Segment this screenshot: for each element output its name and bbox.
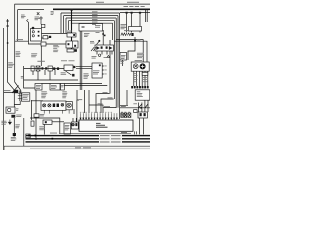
wire: switch drops x97-x112 xyxy=(97,51,112,55)
hazard blob xyxy=(73,66,75,68)
wire: staircase line 2 xyxy=(64,15,118,17)
head relay blob b xyxy=(104,35,106,37)
wire: row drop 2 xyxy=(37,71,39,80)
component boxes (white fill) xyxy=(6,24,150,138)
label left of switch xyxy=(90,40,94,43)
wire: lower-left vertical x23.8 xyxy=(23,118,25,146)
wire: right bus vertical 1 xyxy=(119,13,121,119)
wire: main center vertical (thick) xyxy=(71,9,73,52)
label wiper xyxy=(62,90,67,93)
wire: battery negative jog xyxy=(14,101,20,105)
bus junction dot c xyxy=(52,138,54,140)
small triangle symbols below switch xyxy=(107,55,110,57)
module pin comb with arrowheads xyxy=(80,86,149,119)
fuse box small x34 xyxy=(34,114,39,117)
page number text right xyxy=(127,1,139,4)
ground bus bar 3 xyxy=(26,141,151,142)
legend title text xyxy=(75,146,81,149)
combo pin labels xyxy=(104,65,106,68)
wire: top border line xyxy=(15,3,151,5)
fusebox divider xyxy=(71,41,73,48)
pin row of control module xyxy=(81,113,117,118)
bus wire labels xyxy=(92,10,98,13)
starter motor box xyxy=(6,107,15,113)
relay contact blob headlamp a xyxy=(101,46,103,48)
label turn hazard xyxy=(61,59,67,62)
relay solenoid label xyxy=(133,102,137,105)
dimmer box far right xyxy=(129,27,142,32)
wire: fuse drop x135 xyxy=(128,37,135,60)
relay A5 text xyxy=(36,84,41,87)
wire: relay coil drop xyxy=(40,46,42,66)
frame ground blob xyxy=(13,133,16,136)
solenoid box right-bottom xyxy=(138,112,147,118)
bus junction dot d xyxy=(14,135,16,136)
ignition switch upper box xyxy=(67,33,76,37)
motor housing box xyxy=(66,102,72,110)
wire: battery top line xyxy=(4,92,14,94)
inline connector blob xyxy=(49,36,51,38)
wire: row drop 1 xyxy=(32,71,34,75)
glow controller text xyxy=(137,90,141,93)
switch contact blob xyxy=(73,34,75,36)
wire: head relay drop xyxy=(102,30,104,45)
lamp symbol 2 xyxy=(48,104,51,107)
label 14 xyxy=(21,75,23,78)
wire: jog to far-right vertical A xyxy=(116,40,143,62)
row small box 2 (with X) xyxy=(36,66,40,71)
junction block box xyxy=(22,93,30,101)
wire: mid horizontal y83.6 xyxy=(41,83,102,85)
sensor blob xyxy=(72,74,74,77)
wire: staircase line 3 xyxy=(66,17,116,19)
label window relay xyxy=(31,52,37,55)
fuse F1 small box xyxy=(43,36,48,39)
ground bus bar 1 xyxy=(26,135,151,136)
gauge circle left xyxy=(133,64,138,69)
connector pins with X 2 xyxy=(124,113,127,117)
wire: long horizontal y80 xyxy=(24,79,78,81)
brake lamp symbol xyxy=(72,123,75,126)
box A6 text xyxy=(61,84,64,87)
label window pack xyxy=(41,90,47,93)
relay row blob c xyxy=(53,67,55,70)
label below relay box xyxy=(92,55,97,58)
pin arrowheads xyxy=(80,118,118,120)
wire: staircase left vertical 4 xyxy=(67,21,69,30)
tiny text specks (unreadable labels) xyxy=(1,2,147,141)
relay row blob d xyxy=(57,67,59,70)
connector C9 small box xyxy=(142,72,148,75)
ground bus bar 2 xyxy=(26,138,151,139)
label glow plug xyxy=(137,52,144,55)
head relay blob a xyxy=(102,33,104,35)
label fuse C6 xyxy=(121,54,126,57)
label right of fuse xyxy=(137,39,141,42)
glow plug connector pads xyxy=(132,86,149,88)
label flasher xyxy=(53,42,59,45)
wire: row drop 3 xyxy=(44,70,46,75)
combo switch blob xyxy=(99,64,101,66)
wire: right bus vertical 2 xyxy=(117,16,119,108)
starter label xyxy=(16,107,19,110)
wire: relay drop x131.6 xyxy=(131,14,133,33)
row small box 3 xyxy=(48,66,52,71)
wire: feeder corner 3 xyxy=(89,105,103,113)
label above lamps right xyxy=(124,29,129,32)
wire: frame left vertical xyxy=(15,4,21,93)
wire: glow plug column verticals xyxy=(134,71,148,86)
label below hazard xyxy=(61,71,66,74)
wire: right bus vertical 4 xyxy=(113,21,115,99)
label A7 block xyxy=(121,23,127,26)
defogger box xyxy=(50,84,60,91)
label fuse 15A xyxy=(84,32,90,35)
label head relay xyxy=(96,30,101,33)
wire: right bus vertical 6 xyxy=(109,40,111,94)
relay contact blob 3 xyxy=(139,12,141,14)
label latch relay xyxy=(17,38,24,41)
relay contact blob 1 xyxy=(126,12,128,14)
wire: vertical x28.4 upper xyxy=(27,22,29,41)
dark dot lower-left of cluster xyxy=(32,27,34,29)
stop light switch box xyxy=(64,123,71,134)
fuse small x31 xyxy=(31,121,34,126)
junction block text xyxy=(22,93,29,96)
gauge cluster box xyxy=(131,62,149,71)
relay contact blob headlamp b xyxy=(106,46,108,48)
feeder line labels xyxy=(103,91,108,94)
brake component box xyxy=(71,122,78,129)
ground strap box xyxy=(26,134,30,138)
wire: center double vertical b xyxy=(81,31,83,90)
label row above relay line xyxy=(124,5,129,8)
label x51 xyxy=(51,10,54,13)
fuse box U2 xyxy=(66,41,78,48)
wire: left feeder vertical with fuse ticks xyxy=(8,19,15,107)
bottom ground bus bars xyxy=(4,131,150,150)
resistor zigzag 2 xyxy=(127,33,131,36)
relay pack blob xyxy=(45,121,47,123)
brake switch blob xyxy=(75,123,77,126)
wire: relay drop x140 xyxy=(139,14,141,33)
relay A5 box xyxy=(35,84,42,91)
wire: left branch at y41 xyxy=(15,41,41,44)
wire: combo switch pins xyxy=(102,66,104,74)
bus label patch 2 xyxy=(99,138,122,140)
solenoid blob b xyxy=(144,113,146,116)
relay box text xyxy=(95,24,101,27)
diode triangle 2 xyxy=(109,47,112,50)
dark component blobs xyxy=(11,9,145,136)
battery label xyxy=(4,89,11,92)
relay coil box xyxy=(41,42,46,46)
wire: staircase line 5 xyxy=(71,22,113,24)
wire: center switch wires xyxy=(76,66,92,68)
page background xyxy=(0,0,150,150)
faint bottom line xyxy=(30,147,150,149)
solenoid blob a xyxy=(140,113,142,116)
gauge label xyxy=(135,59,143,62)
diode triangle 1 xyxy=(97,47,100,50)
combination switch text xyxy=(93,69,100,72)
relay row blob b xyxy=(45,67,47,69)
connector tick 1 xyxy=(6,20,9,21)
tiny label above bus left xyxy=(50,132,57,135)
wire: row drop 4 xyxy=(49,71,51,80)
wire: center double vertical a xyxy=(79,31,81,90)
wire: stoplight wires up xyxy=(73,118,76,122)
turn hazard switch box xyxy=(64,65,73,71)
smart sensing control module box xyxy=(79,120,133,131)
relay pack label xyxy=(39,125,45,128)
switch lever diagonals xyxy=(91,47,96,51)
wire: feeder corner 2 xyxy=(101,99,114,113)
lamp filament blob xyxy=(131,33,133,36)
wire: solenoid circle drop xyxy=(40,19,42,24)
frame ground label xyxy=(11,136,16,139)
wire: right lower horizontals xyxy=(120,105,150,108)
gauge circle right (filled) xyxy=(140,64,145,69)
connector C10 small box xyxy=(134,110,138,113)
label B+ top-left xyxy=(21,14,25,17)
fuse label x39 xyxy=(40,113,45,116)
wire: right edge pair xyxy=(146,10,148,22)
stoplight label xyxy=(65,124,70,127)
wire: diagonal to sensor xyxy=(66,71,72,75)
contact dot above relay box xyxy=(99,40,100,41)
relay pin blob K1a xyxy=(38,31,40,33)
wire: right lower comp verticals xyxy=(138,100,148,112)
lamp box blob b xyxy=(57,104,60,108)
wire: right bus vertical 3 xyxy=(115,18,117,105)
relay K1 cluster box xyxy=(31,29,42,42)
wire: inner frame left vertical xyxy=(17,10,19,41)
wire: center bus staircase line 1 xyxy=(61,12,120,14)
connector tick 2 xyxy=(6,25,9,26)
defogger text xyxy=(51,84,57,87)
switch lever above relay box xyxy=(97,42,100,45)
wire: right module vertical xyxy=(126,90,128,105)
label ignition xyxy=(67,30,72,33)
lamp box blob a xyxy=(53,104,56,108)
wire: gauge box stub xyxy=(122,60,124,66)
ground lug label xyxy=(16,114,22,117)
wire: lamp pack bottom stubs xyxy=(44,110,69,114)
junction on y107.8 xyxy=(140,107,142,109)
fuse blob x135 xyxy=(134,40,136,42)
holder blob xyxy=(74,49,77,52)
label near stub xyxy=(120,60,123,63)
wire: starter drops xyxy=(13,118,15,134)
lamp symbol 3 xyxy=(61,103,64,106)
crossed switch symbol xyxy=(37,12,40,15)
wire: feeder lines into lamp box xyxy=(32,100,44,102)
box A6 xyxy=(61,84,65,91)
engine ground label xyxy=(1,120,6,123)
wire: staircase left vertical 1 xyxy=(60,13,62,33)
wire: relay drop x126.6 xyxy=(126,14,128,33)
battery terminal cluster xyxy=(14,90,19,93)
headlamp relay box xyxy=(95,45,114,51)
bus label patch 3 xyxy=(99,141,122,143)
wire: wiper drop xyxy=(73,109,75,114)
relay coil circle b xyxy=(32,35,34,37)
junction node on B+ bus xyxy=(70,9,73,11)
wire: coil to fusebox xyxy=(46,43,66,45)
black wire label xyxy=(15,123,20,126)
wire: relay output lower xyxy=(42,37,49,39)
row small box 1 xyxy=(31,66,34,71)
bus junction dot a xyxy=(28,135,30,137)
legend box top border xyxy=(4,146,150,150)
wire: mid horizontal y85.5 xyxy=(63,85,107,87)
node S234 label xyxy=(79,98,83,101)
wire: relay feed line y12.6 right xyxy=(120,12,150,14)
wire: right comp diagonals xyxy=(138,104,148,108)
fuse holder lower xyxy=(67,49,74,52)
wire: row drop 5 xyxy=(54,70,56,75)
relay row blob a xyxy=(41,67,43,69)
fuse element blob a xyxy=(68,43,70,45)
wire: inner top line left xyxy=(18,9,44,11)
label B+ link left xyxy=(8,61,13,64)
thin wire above bus bars xyxy=(59,132,131,135)
wire: right bus vertical 5 xyxy=(112,23,114,40)
bus junction dot b xyxy=(35,135,37,137)
bus label patch 1 xyxy=(99,135,122,137)
battery plates xyxy=(18,91,23,102)
wire: feeder corner 4 xyxy=(104,105,117,108)
module bottom drops xyxy=(135,131,137,134)
bus label row under module xyxy=(121,131,127,134)
wire: jog to far-right vertical B xyxy=(114,41,147,62)
label flexible link xyxy=(16,50,21,53)
motor symbol xyxy=(67,103,71,107)
wire: far-left page vertical xyxy=(3,28,5,150)
label solenoid xyxy=(35,16,40,19)
lamp pack box xyxy=(41,101,66,110)
lamp symbol 1 xyxy=(43,104,46,107)
solenoid circle xyxy=(40,17,42,19)
connector pins with X 1 xyxy=(121,113,124,117)
fuse C6 lower label xyxy=(121,105,126,108)
inline connector chevron xyxy=(27,19,29,22)
relay pin blob K1b xyxy=(38,35,40,37)
combination switch box xyxy=(92,63,102,78)
wire: left mid vertical x23.6 xyxy=(24,66,35,88)
wire: stop light feed xyxy=(50,121,64,123)
wire: relay output to fuse xyxy=(42,33,68,35)
wire: feeder corner 1 xyxy=(96,94,110,113)
wire: S234 drop to stop light switch xyxy=(76,100,78,122)
relay box top-right wide xyxy=(79,24,103,32)
circles / symbols xyxy=(8,12,146,126)
wire: fuse line y118 xyxy=(30,118,60,133)
relay coil circle a xyxy=(32,31,34,33)
label neutral switch xyxy=(84,72,89,75)
fuse C6 box xyxy=(120,53,127,61)
connector labels above pins left xyxy=(80,111,81,114)
small comp cluster x41 xyxy=(41,24,45,27)
module title text (dark) xyxy=(96,123,108,128)
wire: module feeds xyxy=(85,90,90,113)
connector labels above pins right xyxy=(121,111,123,114)
relay pack box x43 xyxy=(43,120,52,124)
wire: crossing diagonal at battery xyxy=(12,86,19,94)
wire: staircase line 4 xyxy=(68,20,114,22)
junction dot left feeder xyxy=(7,42,9,44)
node S234 stub xyxy=(77,90,79,100)
resistor zigzag 1 xyxy=(121,33,127,36)
relay contact blob 2 xyxy=(131,12,133,14)
engine ground symbol xyxy=(8,120,11,125)
wire: relay pack drops xyxy=(43,124,45,134)
starter solenoid circle xyxy=(8,108,11,111)
wire: main B+ bus (thick) xyxy=(53,8,150,10)
label smart relay xyxy=(37,60,45,63)
page number text left xyxy=(96,1,104,4)
wire: component row wire y68.5 xyxy=(24,68,64,70)
wire: solenoid drops to ground bus xyxy=(140,118,144,134)
connector pins with X 3 xyxy=(128,113,131,117)
fuse element blob b xyxy=(74,45,76,47)
glow plug controller box xyxy=(135,90,150,100)
connector circles below box xyxy=(98,54,100,56)
ground lug xyxy=(11,115,15,118)
wire: staircase left vertical 3 xyxy=(65,18,67,33)
wire: left lamp verticals xyxy=(32,90,37,140)
glow plug column labels xyxy=(134,72,137,75)
wire: staircase left vertical 2 xyxy=(63,16,65,33)
